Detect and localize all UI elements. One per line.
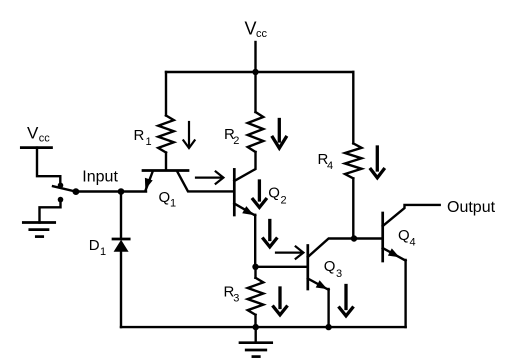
svg-text:Q: Q bbox=[268, 185, 280, 202]
svg-text:2: 2 bbox=[281, 195, 287, 207]
svg-text:R: R bbox=[134, 127, 145, 144]
svg-text:4: 4 bbox=[327, 160, 333, 172]
svg-text:Q: Q bbox=[159, 189, 171, 206]
svg-text:1: 1 bbox=[100, 246, 106, 258]
svg-text:2: 2 bbox=[233, 135, 239, 147]
svg-text:3: 3 bbox=[233, 292, 239, 304]
svg-text:V: V bbox=[245, 19, 257, 39]
svg-text:Input: Input bbox=[82, 169, 118, 186]
svg-text:D: D bbox=[89, 237, 100, 254]
svg-text:4: 4 bbox=[410, 236, 416, 248]
svg-text:cc: cc bbox=[39, 132, 51, 144]
svg-text:1: 1 bbox=[146, 136, 152, 148]
svg-text:Q: Q bbox=[398, 227, 410, 244]
svg-text:Q: Q bbox=[324, 258, 336, 275]
svg-text:1: 1 bbox=[170, 198, 176, 210]
svg-text:cc: cc bbox=[256, 28, 268, 40]
svg-text:Output: Output bbox=[447, 199, 496, 216]
svg-text:3: 3 bbox=[336, 268, 342, 280]
svg-text:V: V bbox=[27, 124, 39, 143]
